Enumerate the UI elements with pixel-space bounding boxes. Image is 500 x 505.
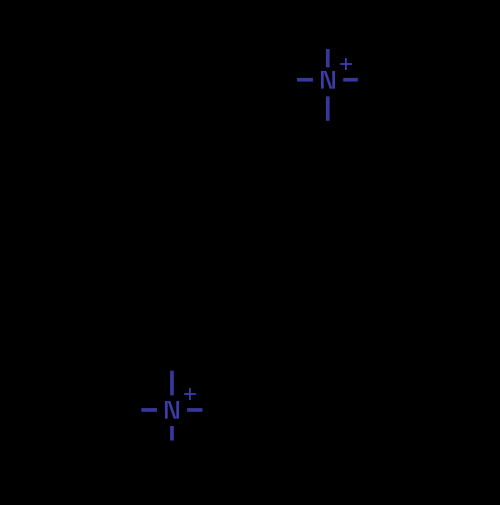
wire: bond N2-C (left methyl) [141, 408, 157, 412]
wire: bond N1-C (left methyl) [297, 78, 313, 82]
atom label N1 [321, 71, 335, 89]
charge + on N2 [184, 388, 196, 400]
wire: bond N1-C (down methyl) [326, 96, 330, 120]
wire: bond N2-C (up methyl) [170, 371, 174, 396]
atom label N2 [165, 401, 179, 419]
charge + on N1 [340, 58, 352, 70]
wire: bond N1-C (up methyl) [326, 49, 330, 67]
wire: bond N2-C (right methyl) [187, 408, 202, 412]
wire: bond N1-C (right methyl) [343, 78, 358, 82]
wire: bond N2-C (down methyl) [170, 426, 174, 441]
